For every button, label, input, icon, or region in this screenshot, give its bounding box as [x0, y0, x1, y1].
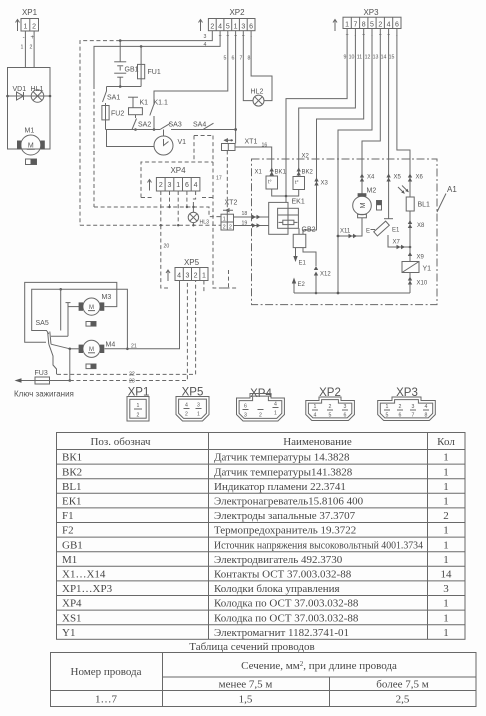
svg-text:20: 20 — [164, 244, 170, 250]
svg-text:8: 8 — [248, 56, 251, 62]
svg-text:1: 1 — [443, 612, 449, 624]
svg-text:менее 7,5 м: менее 7,5 м — [219, 679, 273, 691]
svg-text:1: 1 — [197, 412, 200, 418]
svg-text:5: 5 — [224, 56, 227, 62]
svg-text:E1: E1 — [392, 228, 400, 234]
svg-text:5: 5 — [226, 23, 230, 30]
svg-text:6: 6 — [232, 56, 235, 62]
svg-text:4: 4 — [177, 272, 181, 279]
electrode lead E1 — [293, 248, 306, 267]
wire 10 : XP3-7 to BK2 — [299, 29, 356, 177]
svg-text:6: 6 — [344, 413, 347, 419]
diode VD1 — [13, 86, 27, 100]
dashed harness wire upper (to XT2 pin 1) — [94, 206, 221, 217]
svg-text:Поз. обознач: Поз. обознач — [90, 436, 151, 448]
switch SA5 blades — [48, 332, 70, 375]
pump symbol below M3 — [86, 322, 96, 327]
svg-text:X12: X12 — [320, 272, 331, 278]
svg-text:1: 1 — [443, 554, 449, 566]
svg-text:6: 6 — [249, 23, 253, 30]
svg-text:4: 4 — [274, 402, 277, 408]
svg-text:SA2: SA2 — [138, 122, 151, 129]
wire XP4-4 to HL3 — [193, 191, 195, 207]
svg-text:3: 3 — [412, 404, 415, 410]
svg-text:ХР1…ХР3: ХР1…ХР3 — [62, 583, 113, 595]
svg-text:XT1: XT1 — [245, 139, 258, 146]
svg-text:более 7,5 м: более 7,5 м — [376, 679, 428, 691]
svg-text:2: 2 — [399, 404, 402, 410]
svg-text:X7: X7 — [393, 240, 401, 246]
svg-text:X1…Х14: X1…Х14 — [62, 569, 106, 581]
svg-text:3: 3 — [197, 403, 200, 409]
wire 9 : XP3-1 to EK1 top — [286, 29, 347, 203]
svg-text:5: 5 — [370, 22, 374, 29]
svg-text:SA4: SA4 — [193, 122, 206, 129]
svg-text:8: 8 — [362, 22, 366, 29]
connector XP5 — [166, 258, 208, 281]
contact X8 — [408, 220, 425, 229]
svg-text:BK2: BK2 — [302, 170, 314, 176]
contact X1 — [255, 168, 274, 176]
svg-text:ЕК1: ЕК1 — [62, 496, 82, 508]
svg-text:4: 4 — [204, 42, 207, 48]
svg-text:HL2: HL2 — [251, 89, 264, 96]
svg-text:3: 3 — [185, 272, 189, 279]
node line VD1-HL1 — [6, 95, 51, 98]
bus wire y=129.5 — [106, 129, 161, 131]
svg-text:XP1: XP1 — [22, 8, 38, 17]
timer V1 — [107, 130, 187, 156]
wire 13 : XP3-2 to M2 via X4 — [362, 29, 380, 194]
svg-text:Y1: Y1 — [423, 266, 432, 273]
svg-text:2: 2 — [378, 22, 382, 29]
wire XP1-2 — [33, 31, 35, 68]
connector XP3 (top) — [333, 8, 401, 61]
wire 15 : XP3-6 to BL1 via X6 — [397, 29, 410, 198]
svg-text:2: 2 — [223, 225, 226, 231]
heater EK1 — [269, 199, 305, 235]
svg-text:2: 2 — [159, 182, 163, 189]
svg-text:6: 6 — [244, 404, 247, 410]
lamp HL2 — [251, 89, 265, 107]
wire 22 dashed to XP5-2 — [57, 281, 196, 378]
wire M4 left — [69, 348, 81, 382]
wire 7 : XP2-3 to HL2 — [243, 31, 253, 101]
svg-text:X10: X10 — [417, 281, 428, 287]
terminal XT2 — [221, 200, 237, 231]
thermal fuse F2 — [377, 201, 382, 211]
contact X7 — [393, 240, 412, 250]
node line under GB1/FU1 — [107, 85, 142, 88]
wire M2 to X11 — [338, 218, 362, 236]
svg-text:Ключ зажигания: Ключ зажигания — [14, 390, 74, 399]
sensor BK1 — [266, 170, 287, 190]
contact X6 — [408, 174, 424, 182]
pump symbol below M4 — [86, 364, 96, 369]
svg-text:4: 4 — [314, 413, 317, 419]
svg-text:4: 4 — [185, 403, 188, 409]
svg-text:X8: X8 — [417, 223, 425, 229]
svg-text:E: E — [366, 229, 370, 235]
svg-text:-: - — [23, 35, 25, 41]
svg-text:Термопредохранитель 19.3722: Термопредохранитель 19.3722 — [214, 525, 356, 537]
svg-text:Таблица сечений проводов: Таблица сечений проводов — [189, 641, 314, 653]
svg-text:2: 2 — [259, 413, 262, 419]
svg-text:2: 2 — [329, 404, 332, 410]
svg-text:4: 4 — [194, 182, 198, 189]
svg-text:2: 2 — [137, 413, 140, 419]
switch SA3 — [160, 122, 182, 130]
contact X9 — [408, 247, 425, 262]
connector XP2 (top) — [199, 8, 256, 62]
svg-text:3: 3 — [241, 23, 245, 30]
switch SA4 — [171, 122, 236, 130]
fan unit box with VD1 HL1 M1 — [8, 68, 51, 150]
internal return bus — [294, 292, 410, 295]
wire XP4-1 down — [177, 191, 179, 225]
svg-text:18: 18 — [242, 211, 248, 217]
wire BK2 bottom to EK1 wire — [285, 190, 299, 198]
svg-text:Индикатор пламени 22.3741: Индикатор пламени 22.3741 — [214, 481, 346, 493]
wire 17 dashed (timer link) — [194, 136, 237, 289]
sensor BK2 — [293, 170, 314, 190]
wire 20 dashed down to XP5 — [161, 225, 170, 288]
svg-text:E1: E1 — [299, 261, 307, 267]
svg-text:EK1: EK1 — [292, 199, 305, 206]
wire 5 : XP2-5 to K1.1 — [154, 31, 228, 104]
svg-text:Датчик температуры 14.3828: Датчик температуры 14.3828 — [214, 452, 350, 464]
svg-text:VD1: VD1 — [13, 86, 27, 93]
connector face XP1 (bottom row) — [127, 387, 149, 422]
motor M1 — [17, 128, 45, 156]
contact K1.1 — [150, 100, 168, 131]
svg-text:Y1: Y1 — [62, 627, 75, 639]
svg-text:SA3: SA3 — [169, 122, 182, 129]
svg-text:1: 1 — [202, 272, 206, 279]
svg-text:Источник напряжения высоковоль: Источник напряжения высоковольтный 4001.… — [214, 539, 423, 551]
contact X2 — [297, 168, 301, 176]
svg-text:Электродвигатель 492.3730: Электродвигатель 492.3730 — [214, 554, 343, 566]
svg-text:K1.1: K1.1 — [154, 100, 169, 107]
svg-text:1: 1 — [234, 23, 238, 30]
relay coil K1 — [128, 97, 148, 115]
motor M4 — [79, 340, 116, 357]
wire XP4-2 down to line 22 — [160, 191, 162, 225]
connector XP4 — [148, 166, 200, 191]
svg-text:Датчик температуры141.3828: Датчик температуры141.3828 — [214, 466, 353, 478]
svg-text:M1: M1 — [25, 128, 35, 135]
svg-text:10: 10 — [349, 55, 355, 61]
svg-text:X4: X4 — [367, 175, 375, 181]
svg-text:M2: M2 — [367, 188, 377, 195]
svg-text:4: 4 — [218, 23, 222, 30]
svg-text:Электромагнит 1182.3741-01: Электромагнит 1182.3741-01 — [214, 627, 349, 639]
svg-text:E2: E2 — [298, 282, 306, 288]
svg-text:2: 2 — [210, 23, 214, 30]
switch SA2 on coil branch — [132, 115, 151, 131]
svg-text:11: 11 — [357, 55, 362, 61]
svg-text:4: 4 — [387, 22, 391, 29]
fuse FU3 — [21, 370, 70, 384]
svg-text:6: 6 — [399, 413, 402, 419]
svg-text:GB1: GB1 — [125, 67, 139, 74]
ignition electrodes F1 — [366, 219, 400, 236]
svg-text:1: 1 — [223, 217, 226, 223]
svg-text:M: M — [360, 202, 367, 208]
svg-text:1…7: 1…7 — [95, 694, 118, 706]
wire BL1 to X8 — [409, 211, 411, 247]
svg-text:K1: K1 — [140, 100, 149, 107]
svg-text:9: 9 — [344, 55, 347, 61]
svg-text:1: 1 — [314, 404, 317, 410]
contact X10 — [408, 273, 428, 294]
svg-text:XP3: XP3 — [363, 8, 379, 17]
wire BK1 bottom to EK1 wire — [272, 189, 286, 196]
wire 16 : XT1 to BK1 via X1 — [235, 147, 272, 176]
svg-text:Сечение, мм2, при длине провод: Сечение, мм2, при длине провода — [241, 660, 397, 672]
svg-text:X2: X2 — [302, 154, 310, 160]
svg-text:2: 2 — [194, 272, 198, 279]
svg-text:X5: X5 — [394, 175, 402, 181]
svg-text:BL1: BL1 — [418, 202, 431, 209]
svg-text:GB2: GB2 — [302, 227, 316, 234]
svg-text:2,5: 2,5 — [396, 694, 410, 706]
svg-text:SA5: SA5 — [36, 320, 49, 327]
wire 21 : M4 to XP5-4 — [105, 281, 180, 350]
svg-text:8: 8 — [425, 413, 428, 419]
switch SA1 — [103, 87, 121, 106]
dashed corners around XP5 — [204, 270, 229, 293]
svg-text:5: 5 — [386, 413, 389, 419]
wire electrodes to X7 — [388, 235, 410, 247]
svg-text:7: 7 — [240, 56, 243, 62]
svg-text:M: M — [28, 143, 34, 150]
wire 6 : XP2-1 to node XT1 — [234, 31, 237, 144]
svg-text:X9: X9 — [417, 255, 425, 261]
svg-text:Контакты ОСТ 37.003.032-88: Контакты ОСТ 37.003.032-88 — [214, 569, 352, 581]
electrode lead E2 — [292, 278, 306, 294]
svg-text:15: 15 — [389, 55, 395, 61]
svg-text:t°: t° — [295, 180, 299, 186]
svg-text:1: 1 — [443, 539, 449, 551]
svg-text:5: 5 — [329, 413, 332, 419]
svg-text:XS1: XS1 — [62, 612, 82, 624]
svg-text:X11: X11 — [340, 229, 351, 235]
svg-text:BK1: BK1 — [275, 170, 287, 176]
dashed enclosure around XP4 — [141, 162, 213, 198]
svg-text:V1: V1 — [178, 139, 187, 146]
lamp HL3 — [188, 207, 209, 226]
svg-text:XP5: XP5 — [184, 258, 200, 267]
contact X11 — [337, 229, 357, 239]
M3 left contact bar — [51, 303, 80, 337]
contact X5 — [386, 174, 401, 182]
M3 loop wire — [25, 282, 117, 342]
svg-text:1,5: 1,5 — [239, 694, 253, 706]
svg-text:2: 2 — [443, 510, 449, 522]
ignition key arrow — [14, 378, 74, 398]
wire 23 dashed to XP5-3 — [70, 281, 188, 385]
dashed harness wire lower (to XT2 pin 2) — [80, 224, 221, 226]
svg-text:16: 16 — [262, 143, 268, 149]
svg-text:2: 2 — [32, 24, 36, 31]
parts table — [57, 433, 466, 640]
svg-text:ВК1: ВК1 — [62, 452, 82, 464]
contact X4 — [360, 174, 375, 182]
svg-text:1: 1 — [443, 598, 449, 610]
wire size table — [50, 653, 476, 707]
svg-text:7: 7 — [412, 413, 415, 419]
svg-text:3: 3 — [244, 413, 247, 419]
svg-text:SA1: SA1 — [107, 95, 120, 102]
svg-text:XP4: XP4 — [170, 166, 186, 175]
svg-text:Колодка по ОСТ 37.003.032-88: Колодка по ОСТ 37.003.032-88 — [214, 612, 359, 624]
svg-text:Электроды запальные 37.3707: Электроды запальные 37.3707 — [214, 510, 356, 522]
svg-text:F1: F1 — [62, 510, 74, 522]
svg-text:1: 1 — [386, 404, 389, 410]
wire 11 : XP3-8 to GB2 via X3 — [303, 29, 364, 235]
svg-text:1: 1 — [443, 627, 449, 639]
svg-text:2: 2 — [185, 412, 188, 418]
svg-text:HL3: HL3 — [200, 220, 210, 226]
terminal XT1 — [222, 139, 268, 151]
contact X3 — [314, 178, 328, 187]
wire XP4-6 down — [186, 191, 188, 207]
svg-text:2: 2 — [229, 225, 232, 231]
svg-text:2: 2 — [30, 45, 33, 51]
wire 14 : XP3-4 to electrode via X5 — [388, 29, 390, 219]
svg-text:6: 6 — [185, 182, 189, 189]
svg-text:M4: M4 — [106, 342, 116, 349]
svg-text:М1: М1 — [62, 554, 77, 566]
svg-text:1: 1 — [443, 452, 449, 464]
svg-text:XP2: XP2 — [229, 8, 245, 17]
svg-text:1: 1 — [345, 22, 349, 29]
svg-text:7: 7 — [353, 22, 357, 29]
svg-text:X3: X3 — [321, 181, 329, 187]
svg-text:FU2: FU2 — [111, 111, 124, 118]
svg-text:Колодка по ОСТ 37.003.032-88: Колодка по ОСТ 37.003.032-88 — [214, 598, 359, 610]
svg-text:ВК2: ВК2 — [62, 466, 82, 478]
svg-text:3: 3 — [168, 182, 172, 189]
wire 19 : XT2 to EK1 — [234, 221, 269, 228]
battery GB1 — [114, 41, 138, 87]
contact X12 — [303, 248, 331, 295]
svg-text:1: 1 — [274, 411, 277, 417]
motor M2 — [353, 188, 377, 218]
svg-text:Колодки блока управления: Колодки блока управления — [214, 583, 340, 595]
svg-text:3: 3 — [443, 583, 449, 595]
svg-text:F2: F2 — [62, 525, 74, 537]
svg-text:1: 1 — [443, 466, 449, 478]
switch SA5 enclosure — [32, 289, 61, 334]
svg-text:ХР4: ХР4 — [62, 598, 82, 610]
motor M3 — [79, 294, 112, 315]
svg-text:Кол: Кол — [437, 436, 455, 448]
svg-text:X1: X1 — [255, 170, 263, 176]
svg-text:A1: A1 — [447, 185, 457, 194]
svg-text:3: 3 — [204, 34, 207, 40]
svg-text:FU3: FU3 — [35, 370, 48, 377]
svg-text:1: 1 — [443, 525, 449, 537]
connector face XP5 (bottom row) — [176, 387, 209, 422]
fuse FU1 — [138, 46, 161, 86]
wire XP1-1 — [24, 31, 26, 68]
wire 8 : XP2-6 to HL2 — [251, 31, 272, 101]
svg-text:1: 1 — [443, 496, 449, 508]
svg-text:X6: X6 — [416, 175, 424, 181]
svg-text:6: 6 — [395, 22, 399, 29]
connector face XP2 (bottom row) — [306, 387, 355, 421]
svg-text:1: 1 — [21, 45, 24, 51]
svg-text:1: 1 — [176, 182, 180, 189]
svg-text:Электронагреватель15.8106 400: Электронагреватель15.8106 400 — [214, 496, 364, 508]
wire 3 : XP2-2 to GB1 line — [80, 31, 212, 226]
svg-text:XT2: XT2 — [225, 200, 238, 207]
svg-text:17: 17 — [216, 176, 222, 182]
dashed link XT1 to XT2 — [226, 151, 228, 215]
svg-text:12: 12 — [365, 55, 371, 61]
svg-text:GB1: GB1 — [62, 539, 83, 551]
wire XP4-3 down — [169, 191, 171, 207]
svg-text:14: 14 — [441, 569, 453, 581]
svg-text:23: 23 — [129, 379, 135, 385]
pump symbol below M1 — [26, 159, 37, 165]
svg-text:Наименование: Наименование — [283, 436, 352, 448]
svg-text:1: 1 — [443, 481, 449, 493]
svg-text:M3: M3 — [102, 294, 112, 301]
svg-text:1: 1 — [23, 24, 27, 31]
flame indicator BL1 — [398, 186, 430, 212]
source GB2 — [293, 227, 315, 248]
connector face XP4 (bottom row) — [237, 388, 285, 421]
heater unit A1 dash-dot box — [252, 159, 438, 305]
electromagnet Y1 — [402, 262, 431, 273]
fuse FU2 — [102, 105, 124, 130]
svg-text:4: 4 — [425, 404, 428, 410]
connector face XP3 (bottom row) — [378, 387, 436, 421]
wire 4 : XP2-4 to FU1 line — [94, 31, 220, 207]
svg-text:BL1: BL1 — [62, 481, 82, 493]
svg-text:1: 1 — [137, 403, 140, 409]
svg-text:Номер провода: Номер провода — [71, 666, 142, 678]
wire 12 : XP3-5 to internal bus — [338, 29, 372, 294]
svg-text:3: 3 — [344, 404, 347, 410]
svg-text:FU1: FU1 — [148, 69, 161, 76]
connector XP1 (top) — [16, 8, 39, 51]
label A1 with leader — [437, 185, 457, 212]
wire 18 : XT2 to EK1 — [234, 211, 269, 219]
svg-text:t°: t° — [268, 180, 272, 186]
svg-text:14: 14 — [381, 55, 387, 61]
svg-text:13: 13 — [373, 55, 379, 61]
lamp HL1 — [31, 86, 44, 102]
M4 loop wire — [59, 288, 128, 350]
